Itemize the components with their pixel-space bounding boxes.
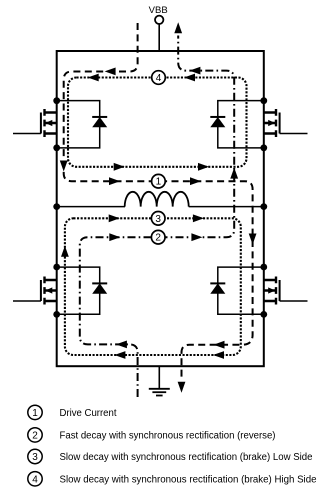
svg-text:Fast decay with synchronous re: Fast decay with synchronous rectificatio… — [60, 430, 276, 441]
svg-text:3: 3 — [155, 214, 161, 225]
path 1 arrow left down — [60, 161, 68, 172]
wire bridge to ground — [158, 366, 160, 389]
transistor Q3 (low-side left MOSFET) — [13, 277, 57, 305]
path 4 arrow bottom right 2 — [198, 163, 209, 171]
svg-text:3: 3 — [32, 452, 38, 463]
junction Q3 drain — [53, 264, 60, 271]
path 2 arrow bottom left — [116, 341, 127, 349]
svg-text:2: 2 — [32, 431, 38, 442]
path 4 slow decay high side loop (dotted) — [68, 78, 247, 167]
wire inductor to right phase node — [189, 206, 264, 208]
path 1 arrow top left — [105, 68, 116, 76]
svg-text:1: 1 — [32, 408, 38, 419]
path 1 arrow right down — [249, 234, 257, 245]
path label 2 on diagram — [151, 230, 165, 244]
path 2 arrow top left — [189, 67, 200, 75]
path 1 arrow to ground — [178, 382, 186, 393]
svg-text:Drive Current: Drive Current — [60, 408, 117, 419]
junction Q2 source — [260, 144, 267, 151]
path 2 arrow to VBB — [174, 22, 182, 33]
wire left phase node to inductor — [57, 206, 125, 208]
path label 3 on diagram — [151, 212, 165, 226]
path label 1 on diagram — [152, 174, 166, 188]
junction Q3 source — [53, 311, 60, 318]
path 1 arrow mid right 1 — [109, 177, 120, 185]
legend item 2 — [28, 428, 276, 442]
diode D4 (Q4 body diode) — [210, 267, 264, 314]
path 3 arrow bottom left 1 — [114, 351, 125, 359]
inductor L1 (motor winding) — [125, 192, 189, 207]
junction Q4 source — [260, 311, 267, 318]
svg-text:4: 4 — [32, 474, 38, 485]
path 2 fast decay reverse (dash-dot route ground to VBB) — [80, 36, 234, 398]
transistor Q1 (high-side left MOSFET) — [13, 109, 57, 137]
path 3 arrow top right 2 — [193, 214, 204, 222]
path 4 arrow top left 1 — [88, 74, 99, 82]
transistor Q4 (low-side right MOSFET) — [264, 277, 308, 305]
svg-text:2: 2 — [155, 233, 161, 244]
diode D2 (Q2 body diode) — [210, 101, 264, 148]
diode D3 (Q3 body diode) — [57, 267, 107, 314]
VBB terminal — [155, 16, 163, 24]
path 1 arrow mid right 2 — [190, 177, 201, 185]
junction Q4 drain — [260, 264, 267, 271]
path 3 arrow top right 1 — [109, 214, 120, 222]
svg-text:1: 1 — [156, 177, 162, 188]
path 3 arrow left up — [61, 246, 69, 257]
path 2 arrow right up — [230, 168, 238, 179]
svg-text:Slow decay with synchronous re: Slow decay with synchronous rectificatio… — [60, 474, 317, 485]
path 3 arrow bottom left 2 — [213, 351, 224, 359]
ground — [149, 389, 170, 396]
path 1 drive current (dashed route VBB to ground) — [64, 23, 253, 381]
path label 4 on diagram — [152, 71, 166, 85]
wire VBB to bridge — [158, 24, 160, 51]
path 1 arrow bottom left — [214, 341, 225, 349]
junction Q2 drain — [260, 97, 267, 104]
path 2 arrow mid right 2 — [191, 233, 202, 241]
junction Q1 source — [53, 144, 60, 151]
diode D1 (Q1 body diode) — [57, 101, 107, 148]
junction Q1 drain — [53, 97, 60, 104]
path 2 arrow mid right 1 — [109, 233, 120, 241]
legend item 3 — [28, 449, 313, 463]
junction left phase node — [53, 203, 60, 210]
svg-text:4: 4 — [156, 73, 162, 84]
transistor Q2 (high-side right MOSFET) — [264, 109, 308, 137]
svg-text:VBB: VBB — [149, 5, 168, 15]
path 3 slow decay low side loop (dotted) — [65, 218, 241, 355]
legend item 1 — [28, 405, 117, 419]
svg-text:Slow decay with synchronous re: Slow decay with synchronous rectificatio… — [60, 452, 313, 463]
full-bridge outline box — [57, 51, 264, 366]
legend item 4 — [28, 472, 317, 486]
path 4 arrow top left 2 — [184, 74, 195, 82]
junction right phase node — [260, 203, 267, 210]
path 4 arrow bottom right 1 — [114, 163, 125, 171]
